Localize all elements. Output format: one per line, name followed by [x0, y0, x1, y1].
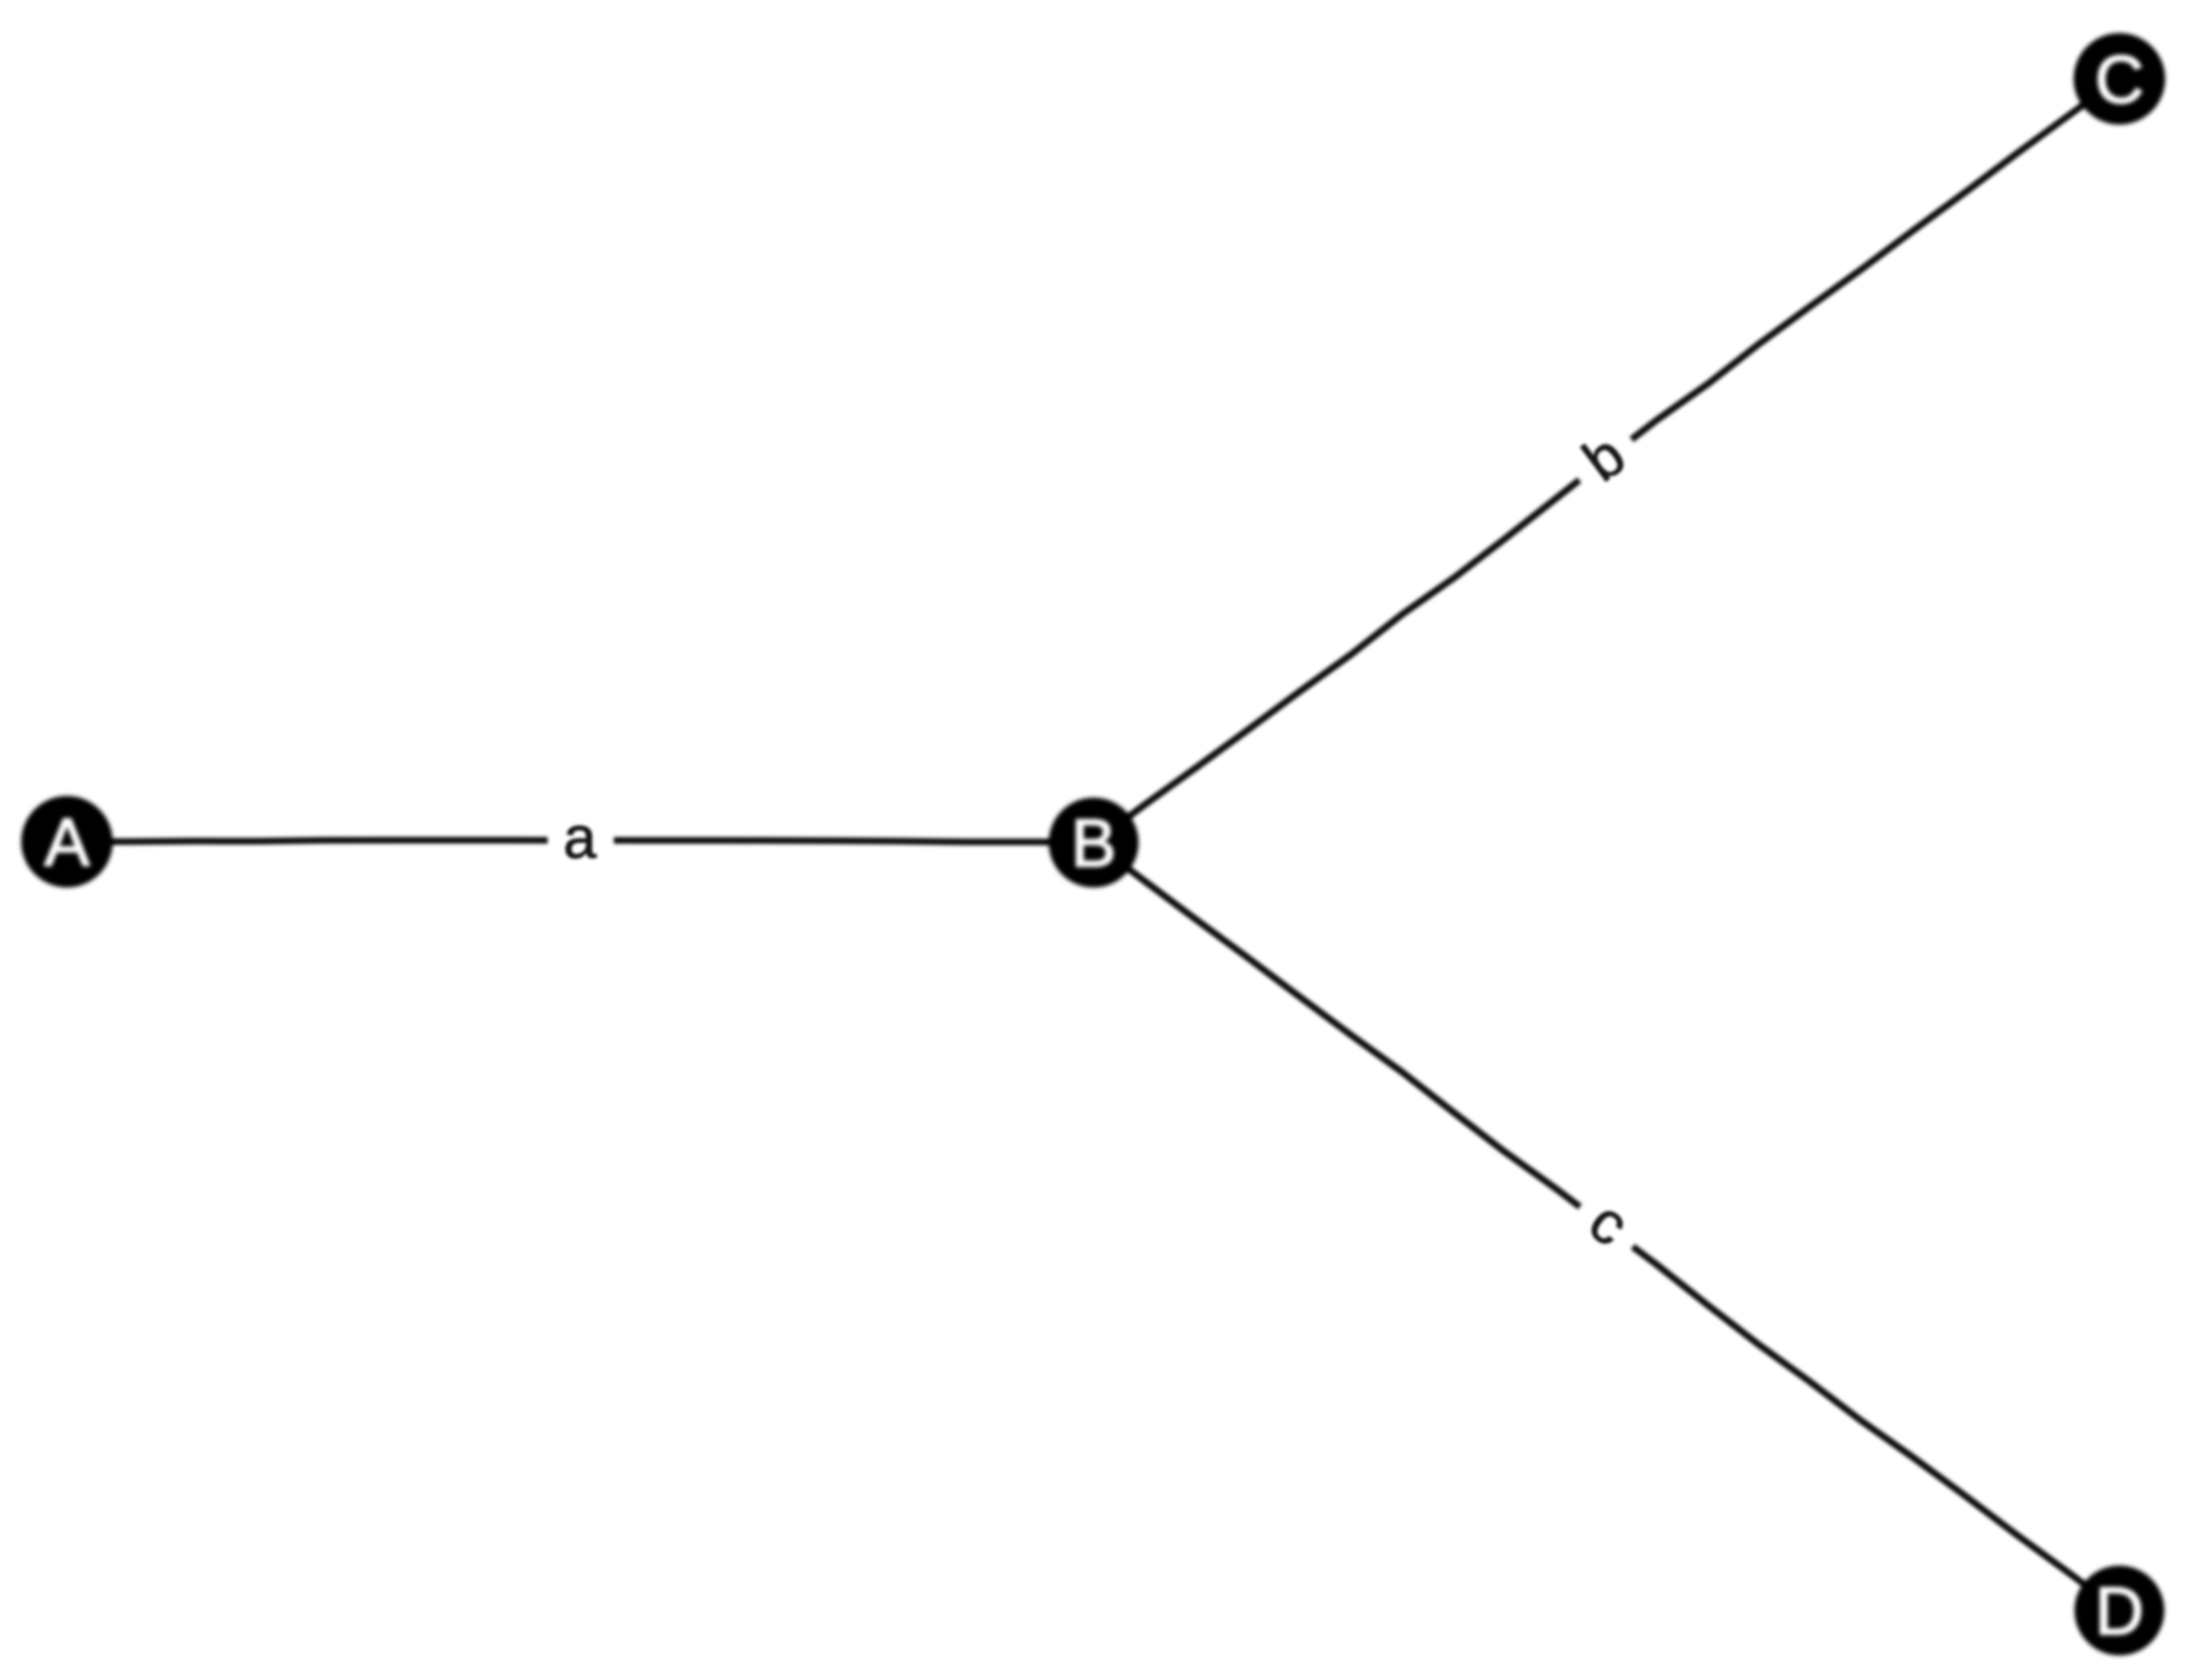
label box c: [1556, 1176, 1657, 1277]
wire edge b (B-C): [1094, 79, 2119, 843]
label box b: [1556, 410, 1657, 512]
label box a: [548, 804, 614, 882]
svg-text:C: C: [2095, 42, 2144, 117]
svg-text:B: B: [1071, 805, 1116, 881]
node A: [21, 796, 113, 887]
wire edge c (B-D): [1094, 843, 2119, 1610]
node B: [1049, 798, 1139, 887]
node D: [2074, 1566, 2164, 1655]
node C: [2074, 33, 2165, 125]
svg-text:D: D: [2095, 1573, 2144, 1649]
svg-text:a: a: [564, 804, 597, 871]
wire edge a (A-B): [67, 840, 1094, 842]
svg-text:A: A: [44, 804, 90, 880]
